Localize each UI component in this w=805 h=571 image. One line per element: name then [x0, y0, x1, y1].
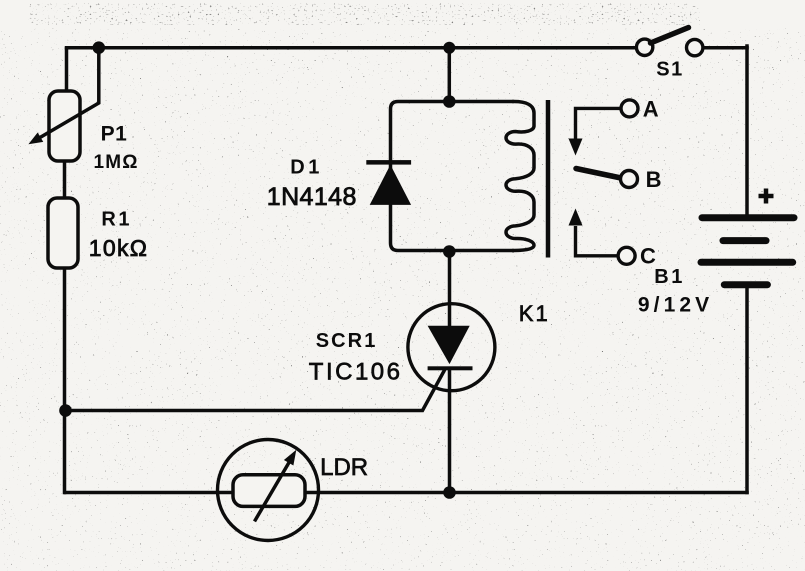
SCR1 triangle — [428, 326, 470, 364]
wire top rail — [67, 46, 637, 50]
diode D1 cathode bar — [366, 160, 411, 165]
wire SCR gate run — [66, 371, 445, 411]
svg-text:1MΩ: 1MΩ — [94, 152, 139, 173]
switch S1 left terminal — [636, 39, 652, 55]
node dot parallel bottom junction — [443, 245, 456, 258]
LDR body rect — [233, 475, 305, 507]
potentiometer P1 wiper arrow — [40, 50, 99, 138]
scan noise band top — [28, 3, 700, 25]
wire SCR cathode to bottom rail — [448, 370, 452, 493]
svg-text:A: A — [643, 97, 659, 122]
battery B1 plate 1 long — [702, 214, 794, 221]
node dot bottom junction — [443, 486, 456, 499]
wire S1 to right corner — [703, 46, 748, 50]
svg-text:R1: R1 — [101, 209, 132, 231]
svg-text:D1: D1 — [290, 157, 323, 179]
relay contact A terminal circle — [621, 100, 638, 117]
SCR1 cathode bar — [428, 366, 473, 370]
relay contact B lever — [576, 169, 621, 179]
svg-text:SCR1: SCR1 — [316, 330, 378, 352]
svg-text:9/12V: 9/12V — [638, 294, 713, 317]
battery B1 plate 2 short — [723, 237, 766, 244]
wire right rail lower (battery to bottom) — [745, 286, 749, 493]
relay contact A wire and arrow — [576, 108, 622, 139]
wire left rail lower (R1 to bottom corner) — [63, 268, 67, 493]
wire SCR anode from parallel section — [448, 252, 452, 328]
relay contact C terminal circle — [618, 247, 635, 264]
wire right rail upper (to battery) — [745, 46, 749, 216]
svg-text:B: B — [646, 167, 662, 192]
node dot top-middle junction — [443, 42, 455, 54]
wire bottom rail — [66, 491, 748, 495]
relay K1 coil — [506, 102, 534, 251]
svg-text:S1: S1 — [656, 59, 683, 81]
switch S1 right terminal — [687, 39, 703, 55]
diode D1 triangle — [370, 165, 411, 205]
node dot top-left junction — [93, 41, 106, 54]
node dot gate-left junction — [59, 404, 72, 417]
switch S1 lever — [651, 28, 689, 44]
wire/loop D1 left side of parallel section — [391, 102, 513, 251]
wire left rail top (corner to P1) — [65, 49, 69, 91]
LDR arrow — [255, 463, 290, 522]
relay contact B terminal circle — [621, 171, 638, 188]
SCR1 circle — [408, 304, 495, 391]
relay contact C wire and arrow — [576, 226, 619, 256]
LDR circle — [218, 440, 319, 541]
resistor R1 body — [48, 198, 78, 268]
svg-text:LDR: LDR — [320, 454, 368, 481]
node dot parallel top junction — [443, 95, 456, 108]
battery B1 plate 3 long — [701, 259, 793, 266]
wire P1 to R1 — [63, 161, 67, 198]
battery B1 plate 4 short — [724, 281, 767, 288]
svg-text:K1: K1 — [519, 301, 550, 326]
relay core bar — [546, 100, 551, 258]
svg-text:C: C — [640, 244, 656, 269]
battery plus sign — [759, 189, 774, 204]
wire D1 branch drop from top rail — [448, 48, 452, 102]
svg-text:TIC106: TIC106 — [309, 359, 403, 386]
svg-text:P1: P1 — [101, 122, 128, 145]
svg-text:B1: B1 — [654, 266, 685, 288]
svg-text:1N4148: 1N4148 — [267, 183, 357, 211]
potentiometer P1 body — [49, 91, 80, 161]
svg-text:10kΩ: 10kΩ — [89, 235, 148, 261]
